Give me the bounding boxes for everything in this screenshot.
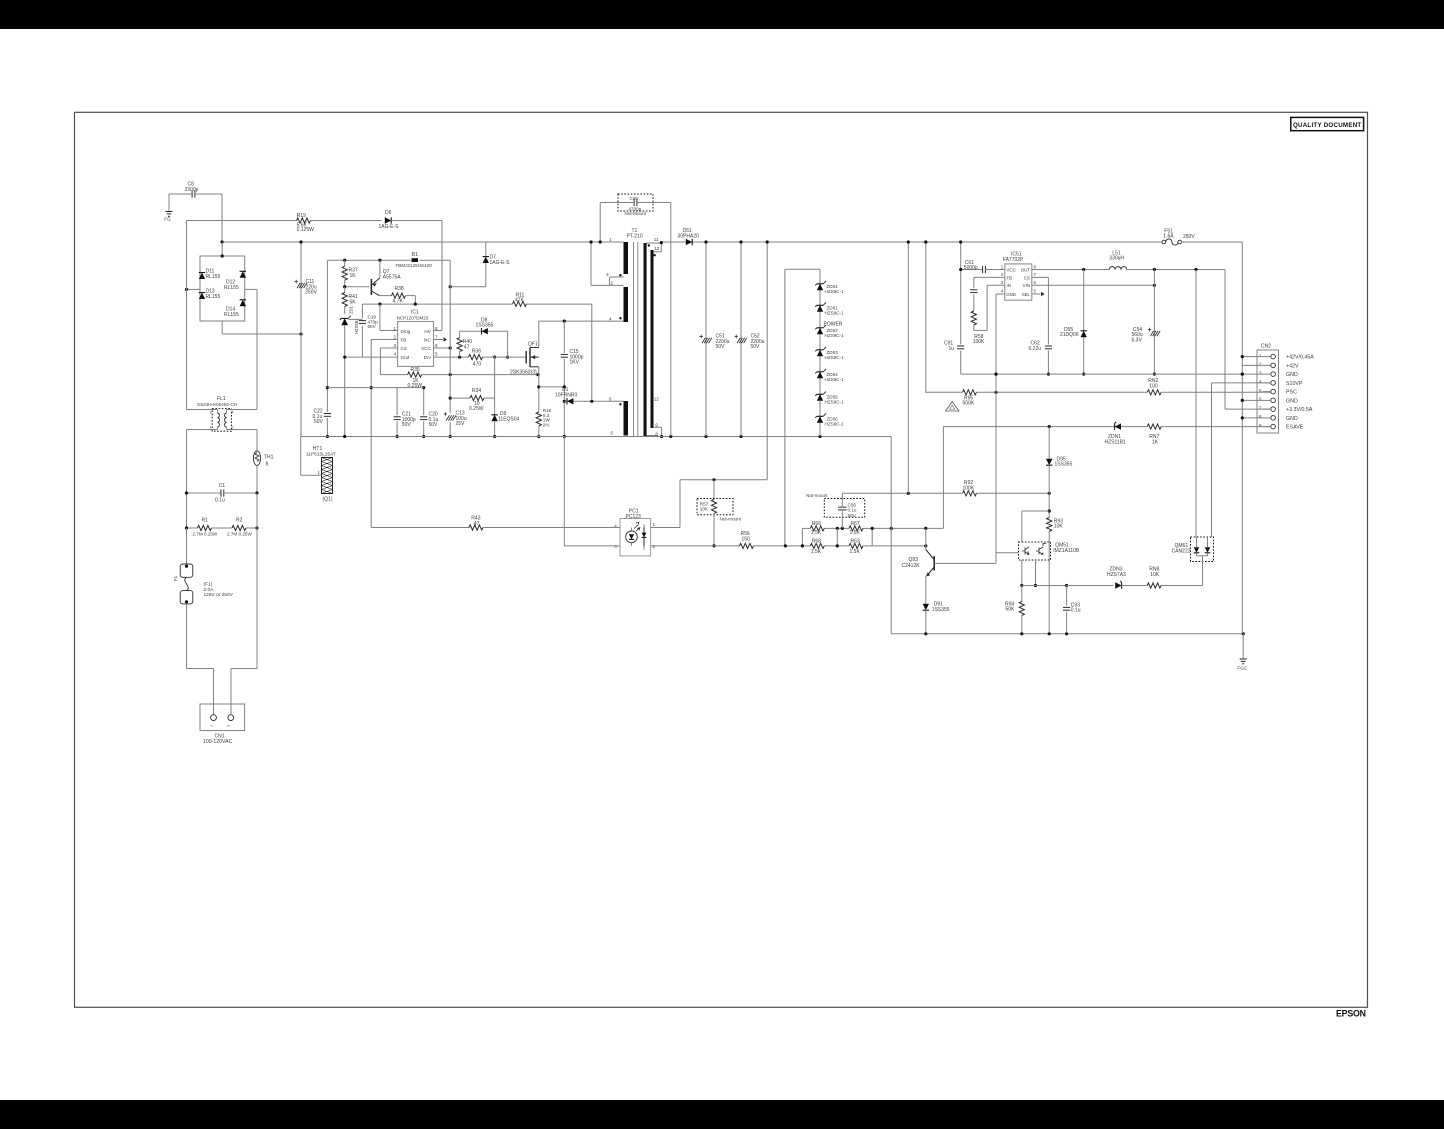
svg-text:0.25W: 0.25W: [469, 406, 484, 412]
frame bottom black bar: [0, 1100, 1444, 1129]
resistor R66: [810, 521, 824, 536]
svg-text:Drv: Drv: [424, 355, 432, 360]
svg-text:1.5K: 1.5K: [850, 549, 861, 555]
warning mark: [946, 402, 959, 411]
wire R92 row: [842, 492, 1050, 495]
svg-text:0.125W: 0.125W: [297, 227, 315, 233]
svg-text:125V or 250V: 125V or 250V: [204, 592, 234, 598]
svg-text:HZS9B1: HZS9B1: [354, 318, 359, 334]
svg-text:3: 3: [606, 272, 609, 277]
resistor R92: [963, 480, 977, 496]
wire PC1 pin4 row: [371, 528, 631, 532]
svg-text:FBMJ2125HS420: FBMJ2125HS420: [396, 263, 433, 268]
svg-text:50V: 50V: [429, 422, 439, 428]
svg-text:RL155: RL155: [224, 285, 239, 291]
wire bridge AC right: [245, 288, 257, 290]
transistor Q93: [902, 528, 935, 576]
svg-text:330uH: 330uH: [1109, 256, 1124, 262]
transistor Q7: [371, 260, 401, 295]
capacitor C91: [944, 341, 964, 352]
svg-text:CS: CS: [401, 346, 407, 351]
svg-text:1AG-E-S: 1AG-E-S: [379, 224, 400, 230]
capacitor C11: [295, 240, 318, 436]
wire TH1 to CN1: [231, 669, 257, 715]
svg-text:ZD1: ZD1: [349, 305, 354, 314]
wire quad bottom row: [801, 527, 928, 548]
optocoupler PC1: [614, 508, 655, 556]
op-amp U IC1 box: [393, 310, 438, 367]
wire zener chain feed: [785, 269, 820, 546]
resistor R34: [450, 388, 494, 412]
svg-text:CS: CS: [1024, 275, 1030, 280]
svg-text:HZS7A3: HZS7A3: [1107, 572, 1126, 578]
svg-text:50V: 50V: [314, 419, 324, 425]
wire lower ground rail: [891, 632, 1245, 635]
svg-text:2: 2: [232, 426, 234, 430]
svg-text:VIN: VIN: [1023, 283, 1030, 288]
wire QF1 source: [537, 367, 540, 438]
resistor R56: [740, 531, 803, 549]
wire IC51 SEL: [1032, 292, 1045, 296]
diode D91: [923, 576, 950, 634]
svg-text:1u: 1u: [949, 346, 955, 352]
wire IC51 ground rail: [961, 373, 1244, 376]
svg-text:EPSON: EPSON: [1336, 1009, 1366, 1019]
svg-text:R67: R67: [851, 521, 860, 527]
resistor R93: [1047, 518, 1064, 634]
wire IC51 CS: [1032, 277, 1050, 375]
resistor R40: [457, 331, 472, 357]
svg-text:10K: 10K: [1054, 524, 1064, 530]
svg-text:5000p: 5000p: [964, 265, 978, 271]
svg-text:2: 2: [227, 725, 231, 727]
svg-text:CAN222: CAN222: [1172, 549, 1191, 555]
svg-text:R36: R36: [472, 348, 481, 354]
line filter FL1 label: [197, 396, 237, 407]
resistor R2: [212, 518, 259, 537]
svg-text:0.1u: 0.1u: [215, 498, 225, 504]
frame top black bar: [0, 0, 1444, 29]
svg-text:7: 7: [435, 334, 438, 339]
svg-text:100-120VAC: 100-120VAC: [203, 739, 233, 745]
resistor R68: [810, 539, 824, 556]
resistor RN7: [1147, 424, 1270, 445]
svg-text:1SS355: 1SS355: [1055, 462, 1073, 468]
svg-text:R57: R57: [700, 501, 709, 506]
wire PC1 pin2: [644, 546, 740, 550]
capacitor C22: [313, 409, 332, 426]
svg-text:C56: C56: [848, 502, 857, 507]
svg-text:FB: FB: [1007, 275, 1013, 280]
svg-text:100K: 100K: [963, 485, 975, 491]
wire PC1 pin1: [644, 525, 680, 528]
transformer T1 label: [627, 228, 643, 240]
diode D8: [460, 317, 508, 357]
svg-text:NC: NC: [424, 338, 431, 343]
transformer T1 primary winding 2-4: [589, 240, 628, 322]
wire VCC vertical: [449, 260, 452, 438]
diode D6: [379, 210, 443, 230]
svg-text:1: 1: [609, 237, 612, 242]
resistor RN8: [1147, 562, 1202, 588]
wire IC1 CS pin3: [380, 348, 397, 375]
node rail-C8: [220, 240, 223, 243]
zener ZD51: [815, 281, 844, 294]
svg-text:2%: 2%: [543, 422, 550, 427]
capacitor C20: [420, 386, 438, 438]
wire Dmg to IC1: [380, 304, 398, 330]
wire D6 to IC1 HV: [441, 221, 443, 331]
wire IC1 VCC pin6: [434, 346, 452, 349]
svg-text:QUALITY DOCUMENT: QUALITY DOCUMENT: [1293, 122, 1362, 129]
svg-text:1.6A: 1.6A: [1163, 234, 1174, 240]
wire QM51 bottom pins: [1020, 560, 1037, 587]
svg-text:R35: R35: [411, 367, 420, 373]
zener ZDN3: [1107, 567, 1147, 589]
svg-text:3300p: 3300p: [185, 187, 199, 193]
wire IC51 FB divider: [974, 277, 1005, 288]
page border: [75, 112, 1368, 1007]
svg-text:2.7M 0.25W: 2.7M 0.25W: [227, 531, 252, 536]
resistor R35: [380, 367, 539, 389]
resistor R16: [536, 408, 551, 437]
svg-text:47: 47: [464, 344, 470, 350]
svg-text:1SS355: 1SS355: [476, 323, 494, 329]
wire bridge minus: [222, 321, 302, 336]
svg-text:HZS9C-1: HZS9C-1: [825, 355, 845, 360]
diode D14: [224, 300, 246, 318]
svg-text:C95: C95: [630, 196, 639, 201]
svg-text:PT-210: PT-210: [627, 233, 643, 239]
wire IC1 HV pin8: [434, 330, 442, 332]
wire IC51 OUT rail: [1032, 268, 1225, 271]
wire IC51 left vertical: [959, 240, 962, 374]
svg-text:5: 5: [435, 351, 438, 356]
diode D11: [199, 269, 221, 280]
ferrite bead B1: [327, 252, 450, 268]
fuse F51: [1162, 228, 1195, 245]
svg-text:47K: 47K: [515, 297, 525, 303]
svg-text:Not-Mount: Not-Mount: [625, 211, 647, 216]
zener ZD52: [815, 321, 844, 338]
svg-text:10K: 10K: [1150, 572, 1160, 578]
svg-text:2.7M 0.25W: 2.7M 0.25W: [193, 531, 218, 536]
svg-text:R1: R1: [202, 518, 209, 524]
svg-text:TH1: TH1: [264, 455, 274, 461]
op-amp U IC51 box: [1001, 251, 1037, 300]
svg-text:A5575A: A5575A: [383, 275, 401, 281]
svg-text:R66: R66: [812, 521, 821, 527]
svg-text:0.22u: 0.22u: [1029, 346, 1042, 352]
svg-text:50V: 50V: [716, 344, 726, 350]
transistor QM51: [1019, 542, 1080, 560]
svg-text:IN: IN: [1007, 283, 1011, 288]
wire OUT to CN2 pin7: [1225, 270, 1271, 410]
svg-text:50V: 50V: [848, 513, 857, 518]
resistor R58: [971, 311, 987, 345]
zener ZD61: [815, 303, 844, 316]
svg-text:1KV: 1KV: [570, 360, 580, 366]
wire ESAVE row: [943, 425, 1114, 528]
svg-text:Dmg: Dmg: [401, 329, 411, 334]
resistor R1: [185, 518, 218, 537]
svg-text:1.5K: 1.5K: [811, 530, 822, 536]
svg-text:3: 3: [393, 343, 396, 348]
svg-text:1K: 1K: [350, 273, 357, 279]
wire latch node: [996, 493, 1051, 553]
diode D12: [224, 271, 246, 291]
capacitor C13: [444, 411, 467, 428]
resistor R95: [926, 390, 1147, 407]
svg-text:SEL: SEL: [1022, 292, 1031, 297]
svg-text:21DQ06: 21DQ06: [1060, 332, 1079, 338]
connector CN2: [1257, 344, 1314, 433]
svg-text:100: 100: [1149, 383, 1158, 389]
wire Q93 base: [934, 562, 996, 564]
wire rail to HT1: [301, 437, 322, 476]
svg-text:10FRNR0: 10FRNR0: [555, 392, 577, 398]
fuse F1: [173, 528, 234, 609]
line filter FL1: [187, 409, 258, 432]
wire OVP feed: [907, 240, 910, 493]
capacitor C54: [1132, 270, 1161, 376]
wire AC left lower: [186, 430, 188, 563]
svg-text:IMZ1A110B: IMZ1A110B: [1053, 548, 1080, 554]
wire TH1 line lower: [256, 493, 258, 669]
thermistor TH1: [253, 430, 273, 494]
resistor R41: [342, 287, 358, 314]
transformer T1 primary winding 1-3: [606, 237, 628, 286]
transformer T1 aux winding 6-5: [609, 396, 628, 436]
wire rail drop right: [890, 437, 892, 634]
svg-text:(F1): (F1): [204, 582, 213, 588]
svg-text:50K: 50K: [1006, 607, 1016, 613]
svg-text:11P515L25AT: 11P515L25AT: [306, 452, 336, 458]
svg-text:RL155: RL155: [206, 274, 221, 280]
svg-text:POWER: POWER: [824, 321, 843, 327]
svg-text:4: 4: [609, 316, 612, 321]
zener ZD55: [815, 392, 844, 405]
svg-text:NCP1207DM23: NCP1207DM23: [397, 316, 429, 321]
svg-text:R38: R38: [395, 286, 404, 292]
transistor QF1: [510, 342, 539, 376]
svg-text:GND: GND: [1006, 292, 1016, 297]
svg-text:1K: 1K: [1152, 439, 1159, 445]
wire CN2 pin4 leg: [1212, 383, 1271, 537]
wire AC line left upper: [186, 221, 188, 410]
wire CN2 pin3 stub: [1241, 373, 1263, 376]
svg-text:F1: F1: [173, 575, 178, 581]
svg-text:HZS9C-1: HZS9C-1: [825, 422, 845, 427]
svg-text:Not-mount: Not-mount: [720, 516, 742, 521]
svg-text:HZS9C-1: HZS9C-1: [825, 311, 845, 316]
wire PC1 pin3: [564, 437, 631, 546]
svg-text:R2: R2: [236, 518, 243, 524]
svg-text:HZS11B1: HZS11B1: [1105, 439, 1127, 445]
capacitor C93: [1063, 586, 1081, 634]
svg-text:1: 1: [209, 725, 213, 727]
wire IC1 Drv pin5: [434, 356, 510, 359]
svg-text:RL155: RL155: [224, 312, 239, 318]
wire IC51 IN: [987, 285, 1005, 330]
resistor R67: [849, 521, 863, 536]
svg-text:SS24H-K05492-CH: SS24H-K05492-CH: [197, 402, 237, 407]
svg-text:R34: R34: [472, 388, 481, 394]
diode D7: [449, 242, 511, 288]
svg-text:B1: B1: [412, 252, 418, 258]
svg-text:HZS9C-1: HZS9C-1: [825, 333, 845, 338]
wire IC1 FB pin2: [371, 339, 397, 341]
capacitor C56 not-mount: [806, 493, 865, 528]
capacitor C1: [185, 483, 259, 504]
svg-text:PSC: PSC: [1286, 390, 1297, 396]
wire IC51 GND pin: [996, 294, 1005, 295]
capacitor C95 snubber: [599, 194, 671, 437]
svg-text:5: 5: [610, 431, 613, 436]
svg-text:4.7K: 4.7K: [393, 298, 404, 304]
svg-text:VCC: VCC: [421, 346, 431, 351]
wire source to C15: [539, 386, 565, 388]
svg-text:1SS355: 1SS355: [932, 607, 950, 613]
svg-text:10K: 10K: [700, 507, 709, 512]
zener ZD54: [815, 369, 844, 382]
wire Q7 base: [343, 285, 369, 288]
svg-text:GND: GND: [1286, 398, 1298, 404]
svg-text:QF1: QF1: [528, 342, 538, 348]
svg-text:(Q1): (Q1): [323, 497, 333, 503]
svg-text:12: 12: [654, 246, 660, 251]
wire FB junction row: [327, 387, 423, 389]
capacitor C51: [700, 240, 730, 436]
svg-text:11EQS04: 11EQS04: [498, 417, 520, 423]
svg-text:9: 9: [655, 423, 658, 428]
svg-text:FB: FB: [401, 338, 407, 343]
svg-text:+42V/0.45A: +42V/0.45A: [1286, 355, 1314, 361]
svg-text:6: 6: [435, 343, 438, 348]
svg-text:+42V: +42V: [1286, 363, 1299, 369]
svg-text:25V: 25V: [456, 421, 466, 427]
wire IC1 Gnd pin4: [343, 356, 398, 359]
resistor R38: [379, 286, 415, 304]
capacitor C52: [735, 240, 765, 436]
wire CN2 pin6 stub: [1241, 399, 1263, 402]
capacitor C21: [394, 388, 416, 439]
inductor L51: [1109, 250, 1126, 269]
wire C22 vertical: [326, 260, 329, 438]
EPSON logo: [1336, 1009, 1366, 1019]
svg-text:R68: R68: [812, 539, 821, 545]
capacitor C61: [959, 260, 1005, 273]
svg-text:OUT: OUT: [1021, 267, 1031, 272]
svg-text:FG: FG: [164, 217, 171, 223]
svg-text:1: 1: [210, 426, 212, 430]
svg-text:250V: 250V: [305, 290, 317, 296]
svg-text:2.0A: 2.0A: [204, 587, 215, 593]
wire AC line right upper: [256, 289, 258, 409]
svg-text:4: 4: [393, 351, 396, 356]
zener ZD1: [340, 305, 359, 436]
svg-text:ESAVE: ESAVE: [1286, 425, 1304, 431]
resistor R19: [187, 213, 382, 233]
svg-text:GND: GND: [1286, 416, 1298, 422]
svg-text:Not-mount: Not-mount: [806, 493, 828, 498]
zener ZD56: [815, 414, 844, 427]
resistor R37: [342, 260, 358, 287]
resistor R57 not-mount: [697, 480, 742, 548]
capacitor C8: [169, 182, 222, 198]
diode D95: [1046, 427, 1073, 494]
svg-text:1: 1: [393, 326, 396, 331]
svg-text:1.5K: 1.5K: [850, 530, 861, 536]
svg-text:HZS9C-1: HZS9C-1: [825, 377, 845, 382]
wire bridge AC left: [185, 288, 200, 291]
zener ZDN1: [1105, 422, 1148, 445]
svg-text:2SK3563(3): 2SK3563(3): [510, 370, 537, 376]
svg-text:FG2: FG2: [1237, 665, 1247, 671]
quality document stamp: [1291, 117, 1364, 130]
wire CN2 pin1 stub: [1241, 355, 1263, 358]
svg-text:50V: 50V: [751, 344, 761, 350]
wire F51 to CN2: [1182, 241, 1243, 243]
capacitor C19: [359, 315, 378, 330]
transformer T1 core: [634, 242, 638, 437]
wire IC51 gnd vertical: [994, 294, 997, 563]
svg-text:6: 6: [609, 396, 612, 401]
capacitor C15: [561, 321, 584, 438]
resistor RN2: [1147, 378, 1270, 395]
svg-text:HV: HV: [424, 329, 431, 334]
resistor R11: [513, 292, 527, 306]
wire main HV rail: [222, 241, 1162, 243]
resistor R94: [1005, 586, 1024, 634]
wire F1 to CN1: [187, 609, 214, 714]
svg-text:S10VP: S10VP: [1286, 381, 1303, 387]
svg-text:47: 47: [474, 521, 480, 527]
svg-text:8: 8: [655, 432, 658, 437]
svg-text:5K: 5K: [350, 299, 357, 305]
diode D55: [1060, 270, 1087, 376]
transformer T1 secondary winding 12-9: [651, 241, 664, 438]
capacitor C92: [970, 290, 977, 311]
svg-text:D6: D6: [385, 210, 392, 216]
wire C8 to rail: [221, 194, 223, 242]
wire R11 down: [591, 304, 593, 402]
svg-text:R63: R63: [851, 539, 860, 545]
wire CN2 pin2 stub: [1242, 364, 1262, 366]
svg-text:3: 3: [210, 411, 212, 415]
svg-text:12: 12: [654, 397, 660, 402]
diode D1: [555, 387, 624, 405]
svg-text:150: 150: [742, 536, 751, 542]
heatsink HT1: [306, 446, 336, 503]
wire R95 feed: [924, 240, 927, 393]
svg-text:1AG-E-S: 1AG-E-S: [490, 260, 511, 266]
ground FG1: [164, 194, 172, 223]
svg-text:8: 8: [266, 462, 269, 468]
svg-text:1.5K: 1.5K: [811, 549, 822, 555]
capacitor C62: [1029, 341, 1053, 352]
wire secondary ground rail: [301, 435, 892, 438]
wire quad top row: [802, 527, 943, 530]
svg-text:GND: GND: [1286, 372, 1298, 378]
wire CN2 gnd vertical: [1241, 242, 1243, 634]
svg-text:C1: C1: [219, 483, 226, 489]
svg-text:2: 2: [393, 334, 396, 339]
diode D51: [678, 228, 700, 245]
connector CN1: [200, 704, 245, 745]
zener ZD53: [815, 347, 844, 360]
diode D9: [491, 357, 519, 438]
